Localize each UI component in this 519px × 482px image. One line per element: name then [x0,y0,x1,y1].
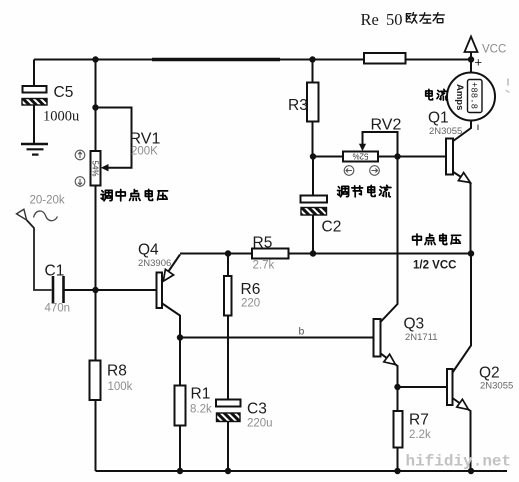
svg-text:220u: 220u [247,418,273,430]
svg-text:2.7k: 2.7k [253,260,275,272]
svg-text:R8: R8 [107,363,127,380]
svg-text:220: 220 [241,298,260,310]
svg-text:50: 50 [386,10,403,29]
svg-text:R6: R6 [241,281,261,298]
svg-text:VCC: VCC [482,44,506,56]
svg-text:200K: 200K [131,146,158,158]
svg-text:2N3906: 2N3906 [138,258,171,269]
svg-text:Q1: Q1 [428,110,449,127]
svg-text:Q2: Q2 [479,365,500,382]
svg-text:R7: R7 [409,412,429,429]
svg-text:+: + [475,55,483,70]
svg-text:+88.8: +88.8 [469,82,479,109]
svg-text:R5: R5 [253,235,273,252]
svg-text:2N3055: 2N3055 [480,381,513,392]
svg-text:R3: R3 [288,97,308,114]
svg-text:2N3055: 2N3055 [429,126,462,137]
svg-text:Q4: Q4 [138,242,159,259]
svg-text:C3: C3 [247,401,267,418]
svg-text:54%: 54% [91,161,100,177]
svg-text:b: b [299,326,305,338]
svg-text:470n: 470n [45,303,71,315]
svg-text:2N1711: 2N1711 [405,332,438,343]
svg-text:R1: R1 [191,386,211,403]
svg-text:Q3: Q3 [404,316,425,333]
svg-text:Re: Re [361,10,379,29]
svg-text:1000u: 1000u [43,109,79,125]
svg-text:8.2k: 8.2k [190,404,212,416]
svg-text:20-20k: 20-20k [30,195,65,207]
svg-text:1/2 VCC: 1/2 VCC [413,260,456,272]
svg-text:52%: 52% [352,151,368,160]
svg-text:Amps: Amps [454,84,465,110]
svg-text:2.2k: 2.2k [409,429,431,441]
svg-text:100k: 100k [108,381,133,393]
svg-text:C5: C5 [54,84,74,101]
svg-text:C2: C2 [322,219,342,236]
svg-text:C1: C1 [45,263,65,280]
svg-text:RV2: RV2 [371,117,402,134]
svg-text:hifidiy.net: hifidiy.net [406,453,512,471]
